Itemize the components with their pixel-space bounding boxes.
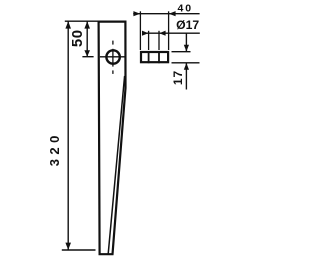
svg-text:50: 50 — [69, 29, 86, 47]
hole vertical centerline (dashed) — [112, 41, 114, 45]
svg-text:40: 40 — [177, 3, 193, 15]
svg-text:17: 17 — [171, 70, 185, 85]
hole (front view) — [106, 50, 119, 63]
extension line left (40) — [139, 11, 141, 50]
extension line right (40) — [168, 11, 170, 50]
dimension line 17 upper segment — [185, 33, 187, 51]
svg-text:Ø17: Ø17 — [176, 18, 199, 32]
hole edges in side view — [148, 51, 150, 63]
dimension line 50 — [86, 21, 88, 57]
dimension line 40 — [133, 13, 199, 15]
hole horizontal centerline — [100, 56, 125, 58]
dimension line 17 lower segment — [185, 63, 187, 90]
extension tick top (17) — [172, 51, 191, 53]
hole-center extension tick for 50 — [82, 56, 93, 58]
dimension line d17 — [143, 32, 200, 34]
side view body — [141, 52, 168, 62]
bottom extension tick for 320 — [62, 249, 96, 251]
bevel edge line on tapered face — [108, 76, 124, 254]
extension tick bottom (17) — [172, 62, 200, 64]
extension line left (d17) — [148, 31, 150, 50]
svg-text:320: 320 — [47, 131, 62, 166]
dimension line 320 — [67, 21, 69, 250]
extension line right (d17) — [158, 31, 160, 50]
tine outline (front view) — [99, 22, 126, 255]
top extension line (left of part top edge) — [65, 20, 99, 22]
